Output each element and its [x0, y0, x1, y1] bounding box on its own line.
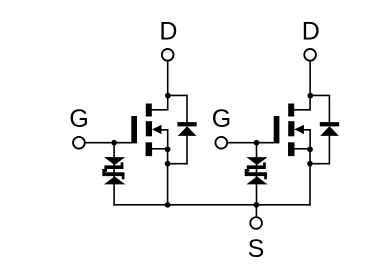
svg-text:S: S — [248, 235, 265, 263]
